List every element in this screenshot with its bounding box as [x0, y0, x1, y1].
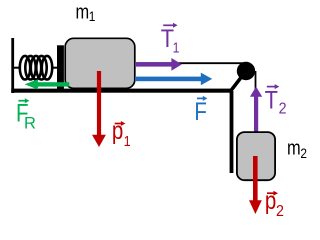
block end plate	[57, 45, 64, 89]
label F_R (with vector arrow)	[16, 98, 36, 132]
rope horizontal segment	[135, 62, 246, 64]
svg-text:2: 2	[276, 203, 284, 220]
table leg	[230, 91, 234, 173]
label T1 (with vector arrow)	[161, 23, 180, 56]
pulley bracket	[231, 71, 246, 91]
svg-text:2: 2	[279, 101, 287, 118]
svg-text:1: 1	[124, 133, 131, 149]
svg-text:R: R	[24, 114, 36, 132]
svg-text:p: p	[265, 186, 276, 214]
svg-text:F: F	[194, 97, 207, 125]
block m2	[237, 132, 275, 180]
force arrow T2 (purple, upward)	[250, 87, 262, 132]
svg-text:T: T	[265, 86, 278, 114]
label p2 (with vector arrow)	[265, 186, 284, 220]
block m1	[65, 38, 135, 88]
svg-text:1: 1	[89, 8, 96, 24]
force arrow F_R (friction, green, leftward)	[25, 79, 70, 89]
label F (with vector arrow)	[194, 96, 207, 126]
force arrow T1 (purple, rightward)	[135, 58, 182, 71]
rope vertical segment	[255, 71, 257, 132]
svg-text:p: p	[112, 116, 123, 144]
pulley	[237, 62, 255, 80]
spring	[14, 56, 57, 80]
label T2 (with vector arrow)	[265, 84, 287, 118]
svg-text:m: m	[76, 0, 90, 23]
svg-text:m: m	[287, 136, 301, 159]
svg-text:1: 1	[173, 40, 180, 56]
force arrow F (blue, rightward)	[135, 73, 212, 86]
force arrow p1 (weight of m1, red, downward)	[92, 71, 106, 147]
label m1	[76, 0, 96, 24]
label m2	[287, 136, 307, 161]
wall	[11, 38, 14, 93]
force arrow p2 (weight of m2, red, downward)	[249, 156, 262, 214]
table surface	[11, 89, 232, 93]
svg-text:2: 2	[300, 145, 307, 161]
label p1 (with vector arrow)	[112, 116, 131, 149]
